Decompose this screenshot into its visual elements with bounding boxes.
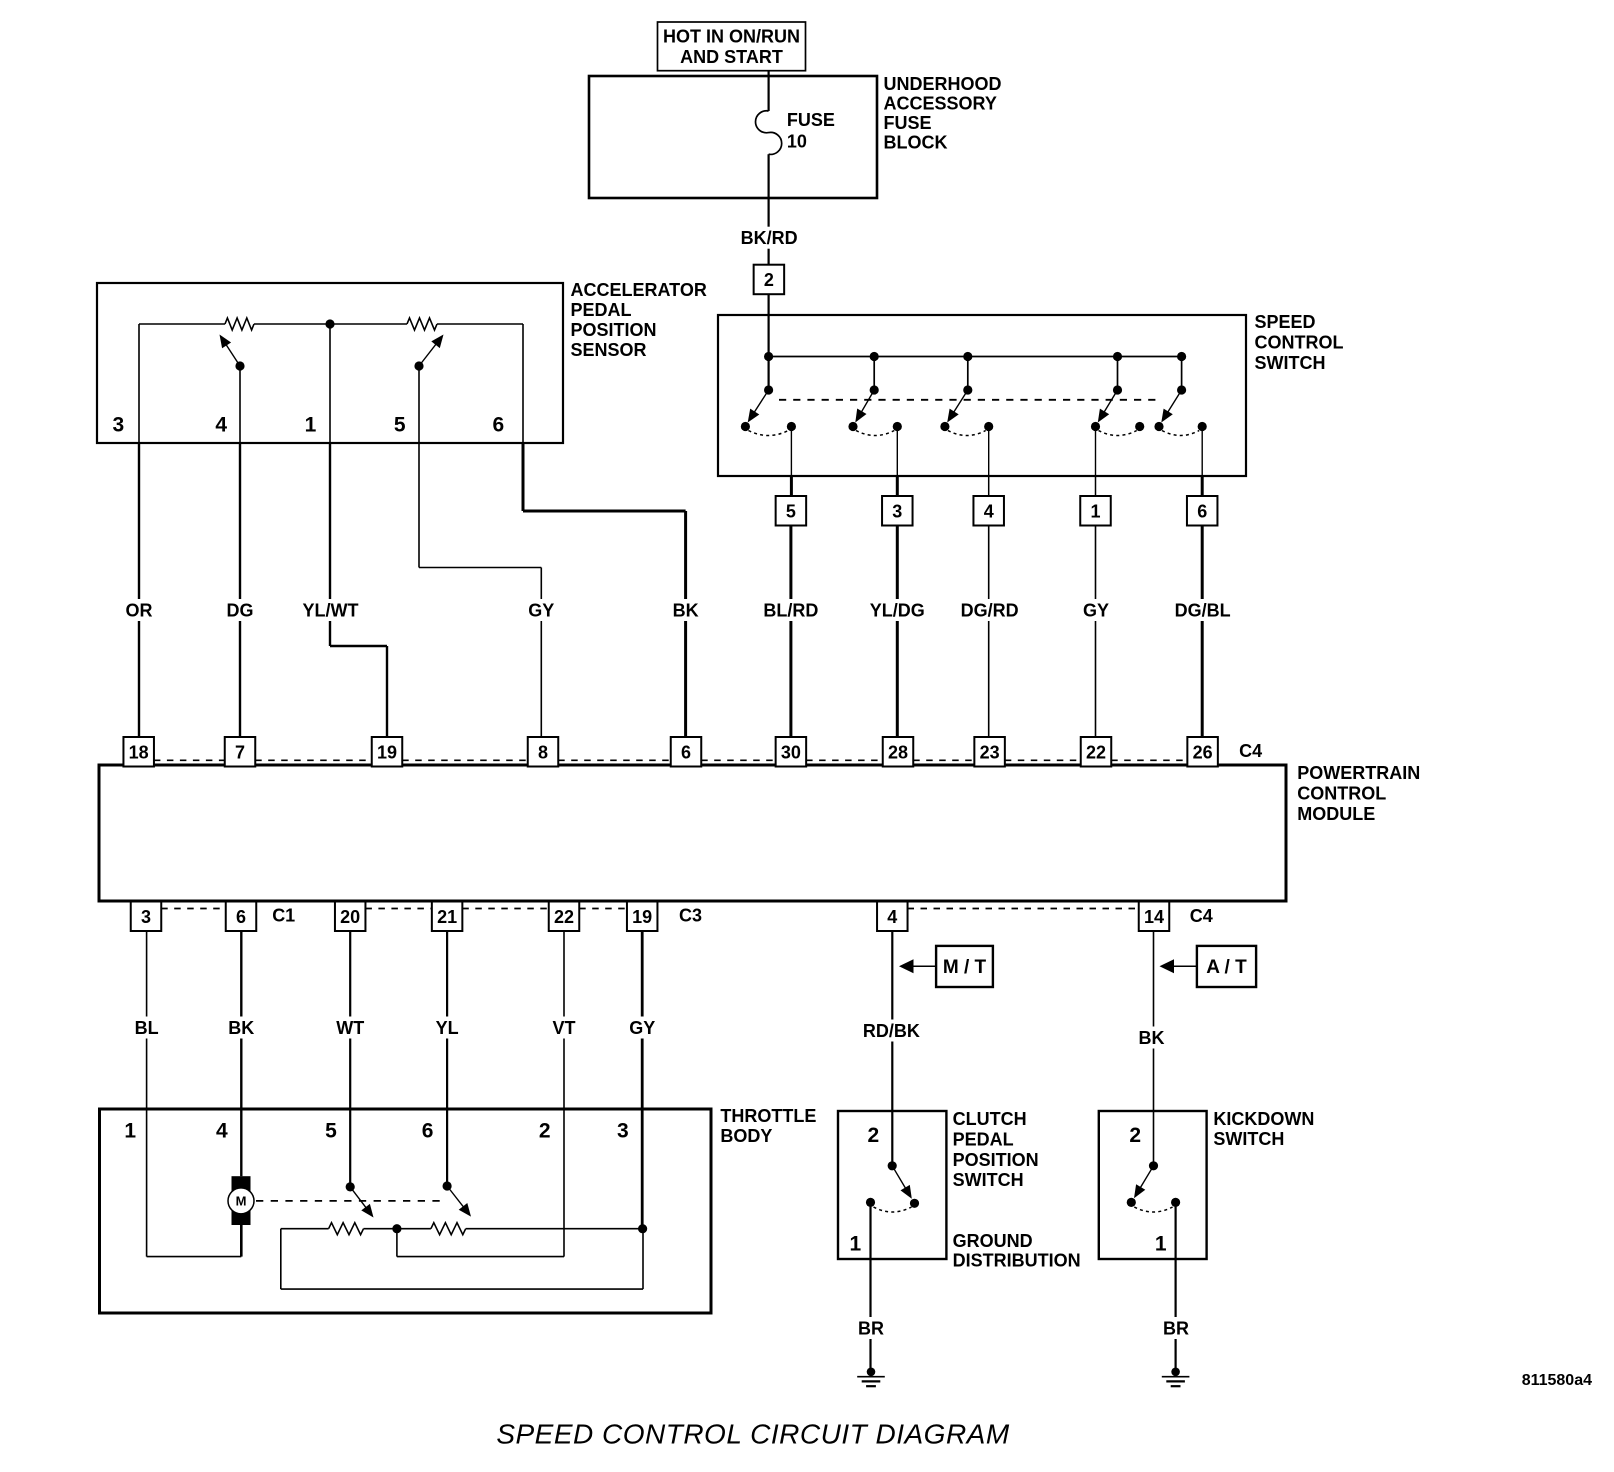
- svg-text:BL/RD: BL/RD: [763, 601, 818, 621]
- svg-text:KICKDOWN: KICKDOWN: [1213, 1109, 1314, 1129]
- svg-text:BODY: BODY: [720, 1126, 772, 1146]
- svg-text:A / T: A / T: [1206, 957, 1247, 978]
- svg-text:BK: BK: [228, 1018, 254, 1038]
- svg-text:3: 3: [892, 501, 902, 521]
- svg-text:DISTRIBUTION: DISTRIBUTION: [953, 1250, 1081, 1270]
- svg-text:10: 10: [787, 131, 807, 151]
- svg-text:MODULE: MODULE: [1297, 804, 1375, 824]
- svg-text:POSITION: POSITION: [571, 320, 657, 340]
- svg-text:RD/BK: RD/BK: [863, 1021, 920, 1041]
- svg-text:POSITION: POSITION: [953, 1150, 1039, 1170]
- svg-text:SPEED: SPEED: [1255, 312, 1316, 332]
- svg-text:1: 1: [305, 413, 317, 436]
- svg-text:6: 6: [1197, 501, 1207, 521]
- svg-text:C4: C4: [1239, 741, 1262, 761]
- svg-text:5: 5: [394, 413, 406, 436]
- svg-text:4: 4: [216, 1120, 228, 1143]
- svg-text:BR: BR: [1163, 1319, 1189, 1339]
- svg-text:5: 5: [325, 1120, 337, 1143]
- svg-text:UNDERHOOD: UNDERHOOD: [884, 74, 1002, 94]
- svg-text:6: 6: [236, 907, 246, 927]
- svg-text:C1: C1: [272, 906, 295, 926]
- svg-text:OR: OR: [126, 601, 153, 621]
- svg-text:CONTROL: CONTROL: [1297, 784, 1386, 804]
- svg-text:6: 6: [422, 1120, 434, 1143]
- svg-text:GY: GY: [629, 1018, 655, 1038]
- svg-text:SPEED CONTROL CIRCUIT DIAGRAM: SPEED CONTROL CIRCUIT DIAGRAM: [496, 1419, 1010, 1450]
- svg-text:3: 3: [617, 1120, 629, 1143]
- svg-text:2: 2: [764, 270, 774, 290]
- svg-text:2: 2: [868, 1124, 880, 1147]
- svg-text:5: 5: [786, 501, 796, 521]
- svg-text:7: 7: [235, 742, 245, 762]
- svg-text:SENSOR: SENSOR: [571, 340, 647, 360]
- svg-text:POWERTRAIN: POWERTRAIN: [1297, 763, 1420, 783]
- svg-text:14: 14: [1144, 907, 1164, 927]
- svg-text:PEDAL: PEDAL: [571, 300, 632, 320]
- svg-text:ACCESSORY: ACCESSORY: [884, 94, 997, 114]
- svg-text:WT: WT: [336, 1018, 364, 1038]
- svg-text:CONTROL: CONTROL: [1255, 333, 1344, 353]
- svg-text:18: 18: [129, 742, 149, 762]
- svg-text:3: 3: [141, 907, 151, 927]
- svg-text:BL: BL: [135, 1018, 159, 1038]
- svg-text:AND START: AND START: [680, 47, 783, 67]
- svg-text:GROUND: GROUND: [953, 1231, 1033, 1251]
- svg-text:HOT IN ON/RUN: HOT IN ON/RUN: [663, 27, 800, 47]
- svg-text:BK: BK: [1139, 1028, 1165, 1048]
- svg-text:22: 22: [554, 907, 574, 927]
- svg-text:YL: YL: [436, 1018, 459, 1038]
- svg-text:GY: GY: [528, 601, 554, 621]
- svg-text:1: 1: [1155, 1232, 1167, 1255]
- svg-text:PEDAL: PEDAL: [953, 1129, 1014, 1149]
- svg-text:DG/BL: DG/BL: [1175, 601, 1231, 621]
- svg-text:8: 8: [538, 742, 548, 762]
- svg-text:M: M: [236, 1194, 247, 1209]
- svg-text:28: 28: [888, 742, 908, 762]
- svg-text:4: 4: [984, 501, 994, 521]
- svg-text:C4: C4: [1190, 906, 1213, 926]
- svg-text:4: 4: [215, 413, 227, 436]
- svg-text:2: 2: [1129, 1124, 1141, 1147]
- svg-text:CLUTCH: CLUTCH: [953, 1109, 1027, 1129]
- svg-text:C3: C3: [679, 906, 702, 926]
- svg-text:DG/RD: DG/RD: [961, 601, 1019, 621]
- svg-text:22: 22: [1086, 742, 1106, 762]
- svg-text:FUSE: FUSE: [787, 110, 835, 130]
- svg-text:BR: BR: [858, 1319, 884, 1339]
- svg-text:GY: GY: [1083, 601, 1109, 621]
- svg-text:BK: BK: [673, 601, 699, 621]
- svg-text:YL/DG: YL/DG: [870, 601, 925, 621]
- svg-text:THROTTLE: THROTTLE: [720, 1106, 816, 1126]
- svg-text:FUSE: FUSE: [884, 113, 932, 133]
- svg-text:1: 1: [124, 1120, 136, 1143]
- svg-text:4: 4: [887, 907, 897, 927]
- svg-text:2: 2: [539, 1120, 551, 1143]
- svg-text:23: 23: [980, 742, 1000, 762]
- svg-text:YL/WT: YL/WT: [303, 601, 359, 621]
- svg-text:811580a4: 811580a4: [1522, 1372, 1592, 1389]
- svg-text:ACCELERATOR: ACCELERATOR: [571, 280, 707, 300]
- svg-text:6: 6: [492, 413, 504, 436]
- svg-text:21: 21: [437, 907, 457, 927]
- svg-text:1: 1: [849, 1232, 861, 1255]
- svg-text:3: 3: [112, 413, 124, 436]
- svg-text:19: 19: [377, 742, 397, 762]
- svg-text:6: 6: [681, 742, 691, 762]
- svg-text:26: 26: [1193, 742, 1213, 762]
- svg-text:BK/RD: BK/RD: [741, 228, 798, 248]
- svg-text:M / T: M / T: [943, 957, 987, 978]
- svg-text:DG: DG: [227, 601, 254, 621]
- svg-text:VT: VT: [552, 1018, 575, 1038]
- svg-text:20: 20: [340, 907, 360, 927]
- svg-text:SWITCH: SWITCH: [1213, 1129, 1284, 1149]
- svg-text:19: 19: [632, 907, 652, 927]
- svg-text:SWITCH: SWITCH: [1255, 353, 1326, 373]
- svg-text:SWITCH: SWITCH: [953, 1170, 1024, 1190]
- svg-text:1: 1: [1090, 501, 1100, 521]
- svg-text:30: 30: [781, 742, 801, 762]
- svg-text:BLOCK: BLOCK: [884, 132, 948, 152]
